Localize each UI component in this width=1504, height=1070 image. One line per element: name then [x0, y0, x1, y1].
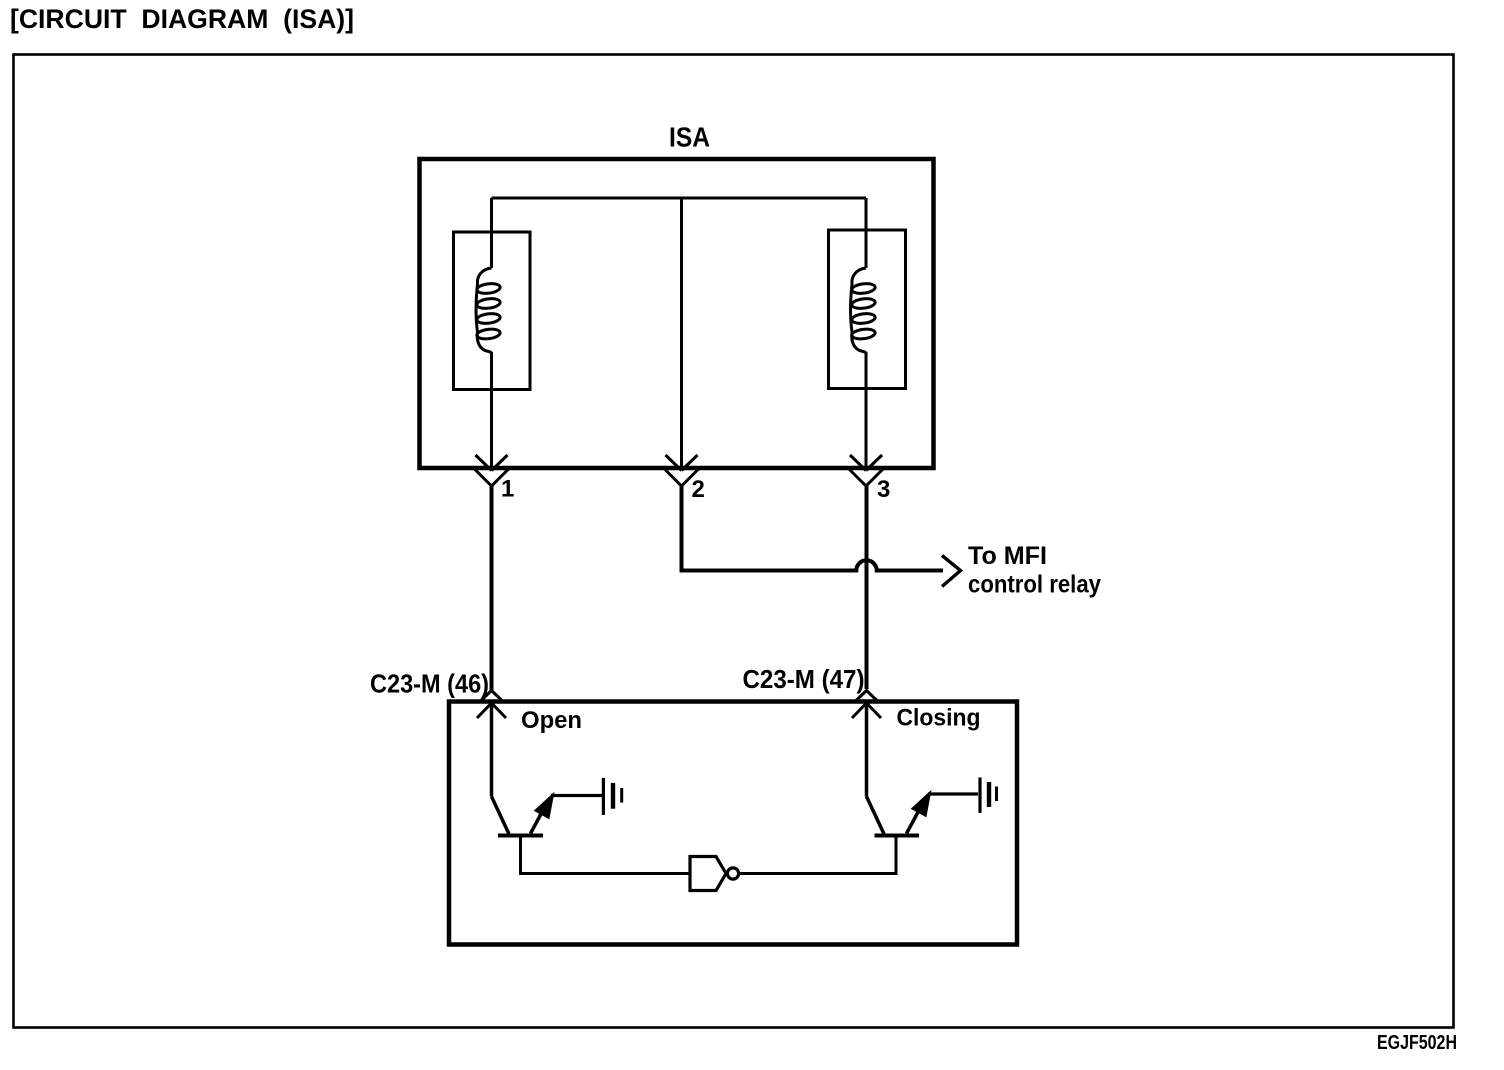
- arrow to MFI relay: [942, 556, 961, 587]
- wire left coil feed: [490, 198, 493, 268]
- wire base Q1 to gate: [521, 837, 689, 874]
- pin 2 connector: [665, 455, 699, 486]
- pin 3 connector: [849, 455, 883, 486]
- wire collector Q1: [490, 703, 494, 797]
- svg-text:2: 2: [692, 476, 705, 503]
- wire gate to base Q2: [739, 837, 896, 874]
- svg-text:C23-M (46): C23-M (46): [370, 669, 489, 699]
- ground G2: [980, 778, 997, 814]
- pin 1 connector: [475, 455, 509, 486]
- svg-text:EGJF502H: EGJF502H: [1377, 1032, 1457, 1054]
- svg-text:Open: Open: [521, 707, 582, 734]
- coil L1 box: [454, 232, 531, 390]
- svg-text:To MFI: To MFI: [968, 542, 1047, 570]
- ISA box U1: [420, 159, 934, 468]
- svg-text:control relay: control relay: [968, 571, 1101, 599]
- transistor Q2: [867, 793, 931, 836]
- wire pin1 to C23-M(46): [490, 486, 494, 690]
- svg-text:C23-M (47): C23-M (47): [743, 664, 865, 694]
- wire emitter Q1 to ground: [551, 794, 603, 797]
- wire pin2 inside ISA: [680, 198, 683, 466]
- svg-text:ISA: ISA: [669, 122, 710, 153]
- wire L2 to pin3: [865, 352, 868, 466]
- connector C23-M(46): [477, 691, 506, 719]
- control unit box: [449, 702, 1017, 945]
- coil L2 box: [829, 230, 906, 389]
- wire right coil feed: [865, 198, 868, 268]
- transistor Q1: [492, 795, 554, 836]
- ground G1: [603, 778, 621, 815]
- wire emitter Q2 to ground: [928, 792, 978, 795]
- coil L1: [476, 268, 501, 354]
- svg-text:Closing: Closing: [897, 705, 981, 732]
- wire top bus inside ISA: [492, 197, 867, 200]
- wire pin3 to C23-M(47): [865, 486, 869, 689]
- svg-text:3: 3: [877, 476, 890, 503]
- wire collector Q2: [865, 703, 869, 797]
- connector C23-M(47): [852, 691, 881, 719]
- coil L2: [851, 268, 876, 354]
- wire L1 to pin1: [490, 352, 493, 466]
- svg-text:1: 1: [501, 476, 514, 503]
- logic gate U2: [690, 857, 739, 891]
- wire pin2 to MFI relay: [682, 486, 944, 571]
- svg-text:[CIRCUIT DIAGRAM (ISA)]: [CIRCUIT DIAGRAM (ISA)]: [10, 4, 354, 34]
